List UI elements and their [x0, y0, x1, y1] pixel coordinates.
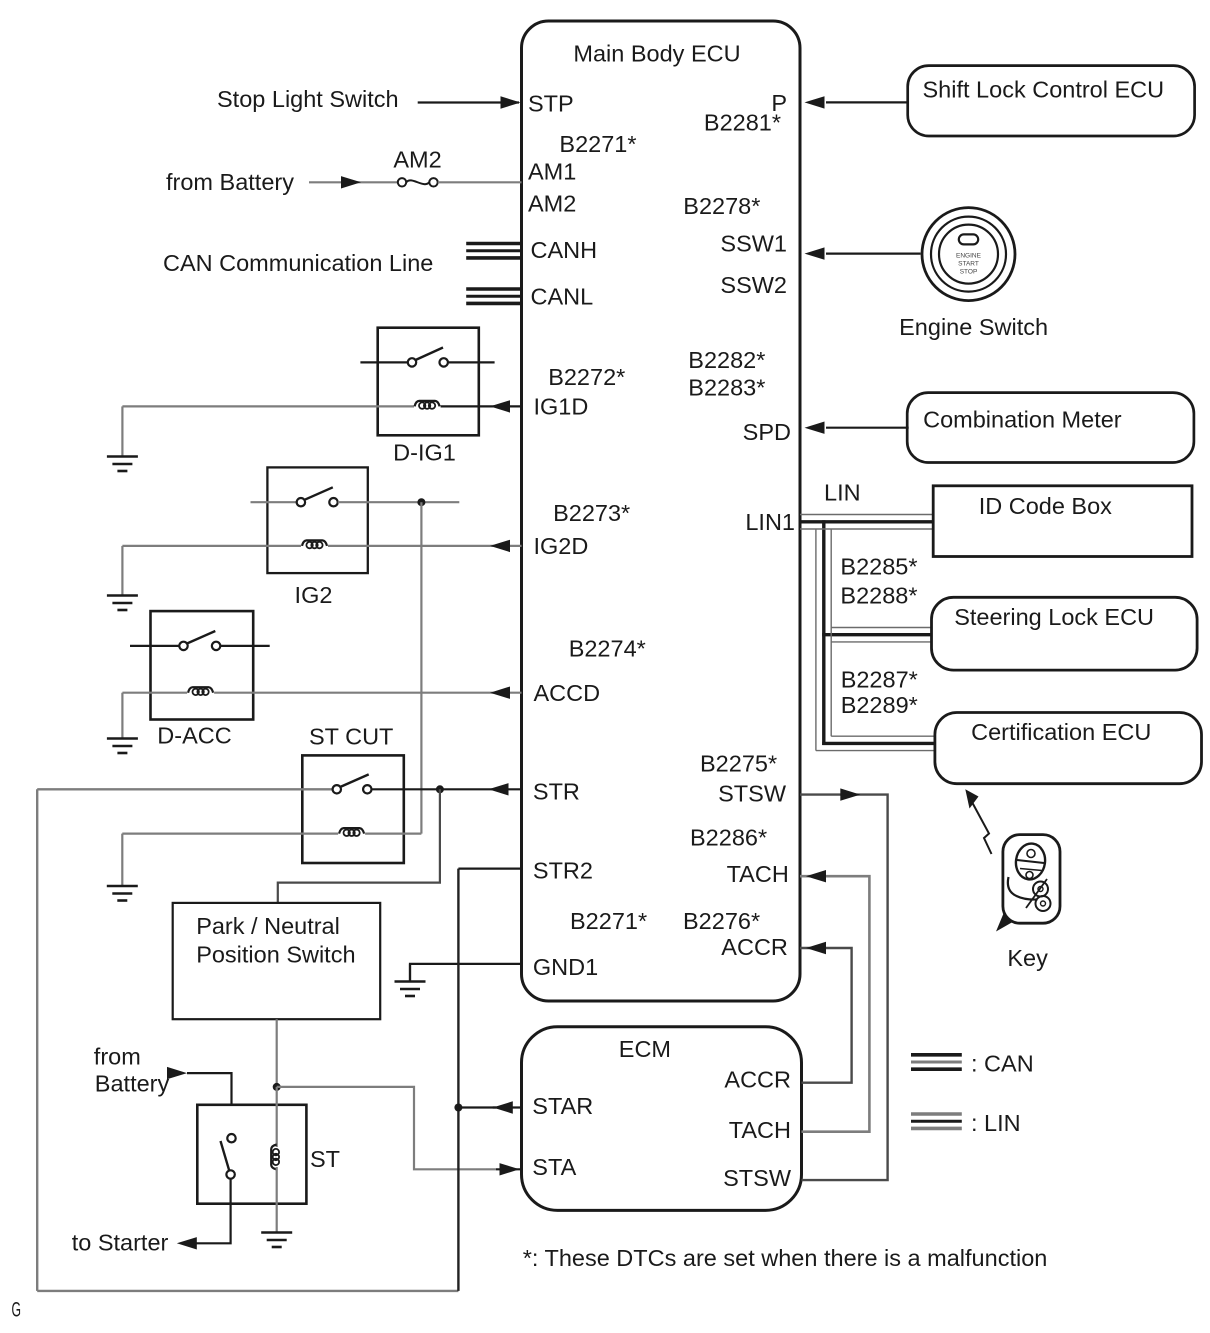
ground (ST coil): [261, 1232, 292, 1247]
svg-text:IG2: IG2: [295, 582, 333, 608]
svg-text:STAR: STAR: [532, 1093, 593, 1119]
arrowhead TACH: [806, 870, 826, 882]
legend LIN symbol: [911, 1114, 962, 1128]
arrowhead P: [805, 96, 825, 108]
svg-text:B2271*: B2271*: [559, 131, 636, 157]
LIN bus thick lines: [800, 520, 935, 745]
svg-text:ACCD: ACCD: [534, 680, 601, 706]
ID Code Box box: [933, 486, 1192, 557]
svg-text:STR2: STR2: [533, 858, 593, 884]
wire ground to ST CUT coil: [122, 832, 338, 834]
relay D-ACC coil: [188, 687, 213, 695]
relay ST CUT switch: [37, 774, 521, 793]
wire ST coil to ground: [276, 1167, 278, 1233]
svg-text:AM2: AM2: [528, 191, 576, 217]
fuse AM2: [398, 178, 438, 186]
arrowhead into STP: [501, 96, 521, 108]
svg-text:STSW: STSW: [718, 781, 787, 807]
svg-text:GND1: GND1: [533, 954, 598, 980]
ECM box: [522, 1027, 802, 1211]
svg-text:B2275*: B2275*: [700, 751, 777, 777]
lightning arrow certification to key: [965, 789, 991, 854]
arrowhead ACCD: [490, 687, 510, 699]
arrowhead IG2D: [490, 540, 510, 552]
relay IG2 box: [267, 467, 367, 573]
ground (GND1): [395, 964, 426, 996]
svg-text:ID Code Box: ID Code Box: [979, 493, 1112, 519]
svg-text:ECM: ECM: [619, 1036, 671, 1062]
junction STAR: [454, 1104, 462, 1112]
svg-text:B2273*: B2273*: [553, 500, 630, 526]
svg-text:from: from: [94, 1044, 141, 1070]
wire ground to D-IG1 coil: [122, 405, 414, 407]
svg-text:B2288*: B2288*: [840, 583, 917, 609]
wire ST switch to starter: [192, 1179, 231, 1244]
wire GND1 to ground: [410, 964, 522, 982]
svg-text:START: START: [958, 261, 979, 268]
relay D-ACC box: [151, 611, 254, 719]
arrowhead SPD: [805, 422, 825, 434]
relay ST switch contact: [221, 1134, 236, 1179]
svg-text:Key: Key: [1007, 945, 1048, 971]
svg-text:B2276*: B2276*: [683, 908, 760, 934]
arrowhead STSW: [840, 788, 860, 800]
wire riser to STR2: [457, 869, 459, 1291]
svg-text:ST: ST: [310, 1146, 340, 1172]
Combination Meter box: [907, 393, 1194, 463]
wire shift lock to P: [826, 101, 909, 103]
relay ST coil: [271, 1145, 279, 1170]
svg-text:LIN: LIN: [824, 480, 861, 506]
svg-text:B2289*: B2289*: [841, 692, 918, 718]
svg-text:LIN1: LIN1: [745, 509, 795, 535]
svg-text:: CAN: : CAN: [971, 1051, 1034, 1077]
svg-text:IG2D: IG2D: [534, 533, 589, 559]
svg-text:B2271*: B2271*: [570, 908, 647, 934]
svg-text:B2287*: B2287*: [841, 666, 918, 692]
wire riser IG2 junction down to ST CUT coil: [420, 502, 422, 833]
svg-text:from Battery: from Battery: [166, 169, 294, 195]
arrowhead from battery: [167, 1067, 187, 1079]
junction STR: [436, 785, 444, 793]
svg-text:AM2: AM2: [393, 147, 441, 173]
wire bottom loop horizontal: [37, 1290, 458, 1292]
svg-text:STR: STR: [533, 778, 580, 804]
wire from battery to fuse AM2: [309, 181, 398, 183]
svg-text:STOP: STOP: [960, 269, 978, 276]
wire STAR stub: [493, 1106, 522, 1108]
wire ACCR to ECM: [800, 948, 852, 1083]
ground (D-IG1): [107, 406, 138, 471]
Steering Lock ECU box: [932, 597, 1198, 670]
svg-text:Battery: Battery: [95, 1070, 170, 1096]
svg-text:D-ACC: D-ACC: [157, 723, 231, 749]
wire D-IG1 coil to IG1D: [441, 405, 522, 407]
arrowhead IG1D: [490, 400, 510, 412]
svg-text:to Starter: to Starter: [72, 1229, 169, 1255]
wire STR junction to Park/Neutral switch: [278, 789, 440, 903]
svg-text:Combination Meter: Combination Meter: [923, 407, 1122, 433]
svg-text:B2272*: B2272*: [548, 364, 625, 390]
arrowhead ACCR: [806, 942, 826, 954]
svg-text:Engine Switch: Engine Switch: [899, 314, 1048, 340]
ground (IG2): [107, 546, 138, 610]
relay ST CUT coil: [339, 828, 364, 836]
wire battery to ST switch: [187, 1073, 232, 1134]
svg-text:CANL: CANL: [531, 283, 594, 309]
svg-text:B2286*: B2286*: [690, 825, 767, 851]
svg-text:TACH: TACH: [727, 861, 789, 887]
svg-text:ENGINE: ENGINE: [956, 253, 982, 260]
junction ST coil / STA branch: [273, 1083, 281, 1091]
key fob: [996, 835, 1060, 932]
svg-text:: LIN: : LIN: [971, 1110, 1021, 1136]
wire IG2 coil to IG2D: [328, 545, 522, 547]
relay D-IG1 switch: [360, 348, 494, 367]
svg-text:STP: STP: [528, 91, 574, 117]
relay D-ACC switch: [130, 631, 270, 650]
relay IG2 switch: [251, 487, 460, 506]
relay D-IG1 box: [378, 328, 479, 436]
LIN bus thin outlines: [800, 515, 935, 751]
wire Park/Neutral to junction: [276, 1019, 278, 1087]
svg-text:Main Body ECU: Main Body ECU: [573, 41, 740, 67]
svg-text:IG1D: IG1D: [534, 394, 589, 420]
svg-text:AM1: AM1: [528, 159, 576, 185]
svg-text:STA: STA: [532, 1154, 576, 1180]
svg-text:TACH: TACH: [729, 1117, 791, 1143]
svg-text:G: G: [12, 1299, 22, 1322]
svg-text:ST CUT: ST CUT: [309, 723, 393, 749]
wire combination meter to SPD: [826, 427, 909, 429]
svg-text:CANH: CANH: [531, 237, 598, 263]
svg-text:Position Switch: Position Switch: [196, 941, 355, 967]
svg-text:SPD: SPD: [743, 419, 791, 445]
relay D-IG1 coil: [415, 401, 440, 409]
arrowhead STR: [489, 783, 509, 795]
svg-text:ACCR: ACCR: [724, 1066, 791, 1092]
Certification ECU box: [935, 713, 1202, 784]
svg-text:Stop Light Switch: Stop Light Switch: [217, 86, 399, 112]
legend CAN symbol: [911, 1055, 962, 1069]
svg-text:ACCR: ACCR: [721, 934, 788, 960]
arrowhead STAR: [493, 1101, 513, 1113]
wire junction to ST coil: [276, 1087, 278, 1147]
svg-text:B2282*: B2282*: [688, 347, 765, 373]
wire ground to IG2 coil: [122, 545, 301, 547]
svg-text:B2274*: B2274*: [569, 635, 646, 661]
relay ST box: [197, 1105, 306, 1204]
arrowhead to starter: [177, 1237, 197, 1249]
Park / Neutral Position Switch box: [173, 903, 381, 1019]
svg-text:SSW2: SSW2: [720, 272, 787, 298]
wire fuse to AM1: [438, 181, 522, 183]
wire engine switch to SSW: [826, 253, 921, 255]
arrowhead toward fuse: [341, 176, 361, 188]
wire ground to D-ACC coil: [122, 692, 187, 694]
wire STA stub: [496, 1168, 522, 1170]
svg-text:B2283*: B2283*: [688, 375, 765, 401]
svg-text:Shift Lock Control ECU: Shift Lock Control ECU: [923, 77, 1165, 103]
svg-text:B2281*: B2281*: [704, 110, 781, 136]
arrowhead into STA: [500, 1163, 520, 1175]
wire junction to STAR: [458, 1106, 496, 1108]
wire stop light switch to STP: [418, 101, 519, 103]
wire left loop vertical: [36, 789, 38, 1291]
svg-text:Certification ECU: Certification ECU: [971, 719, 1151, 745]
svg-text:*: These DTCs are set when the: *: These DTCs are set when there is a ma…: [523, 1245, 1048, 1271]
svg-text:D-IG1: D-IG1: [393, 440, 456, 466]
engine switch button: [922, 208, 1015, 301]
svg-text:B2278*: B2278*: [683, 193, 760, 219]
Main Body ECU box: [522, 21, 801, 1001]
ground (ST CUT): [107, 834, 138, 901]
relay ST CUT box: [302, 755, 404, 863]
CAN stub CANH: [466, 244, 521, 258]
svg-text:CAN Communication Line: CAN Communication Line: [163, 250, 433, 276]
junction IG2 switch / ST CUT coil riser: [417, 498, 425, 506]
CAN stub CANL: [466, 289, 521, 303]
wire TACH to ECM: [800, 876, 869, 1131]
wire D-ACC coil to ACCD: [214, 692, 521, 694]
arrowhead SSW: [805, 247, 825, 259]
wire STSW to ECM: [800, 795, 888, 1181]
svg-text:SSW1: SSW1: [720, 230, 787, 256]
wire junction to STA: [277, 1087, 496, 1169]
Shift Lock Control ECU box: [908, 66, 1195, 136]
svg-text:Steering Lock ECU: Steering Lock ECU: [954, 604, 1154, 630]
svg-text:Park / Neutral: Park / Neutral: [196, 913, 340, 939]
wire into STR2: [458, 867, 521, 869]
relay IG2 coil: [302, 540, 327, 548]
svg-text:STSW: STSW: [723, 1165, 792, 1191]
wire ST CUT coil to riser: [365, 832, 421, 834]
ground (D-ACC): [107, 693, 138, 753]
svg-text:B2285*: B2285*: [840, 554, 917, 580]
